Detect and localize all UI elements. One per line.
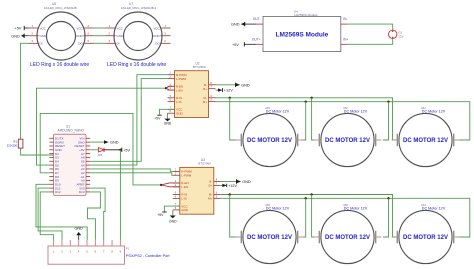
wire M+ bus down to motor M2 right [383,102,389,140]
svg-text:DC Motor 12V: DC Motor 12V [266,109,290,113]
svg-text:GND: GND [176,111,184,115]
svg-text:GND: GND [181,208,189,212]
svg-text:B+: B+ [209,184,213,188]
wire Arduino D5 to U2 enable pins [37,88,167,165]
+5V supply flag at U2 VCC [154,115,161,120]
Arduino Nano U1 body [54,125,87,196]
motor M5 DC Motor 12V [314,203,382,264]
wire lower M+ bus down to motor M6 right [303,198,306,237]
connector P1 PSX/PS2 Controller Port [48,240,130,264]
Arduino Nano U1 pins [49,137,90,195]
svg-text:L-EN: L-EN [176,88,183,92]
motor driver U3 BTS7960 [173,158,221,214]
svg-text:LED Ring x 16 double wire: LED Ring x 16 double wire [107,62,166,68]
svg-text:16xLED_RING_WS2812B-2: 16xLED_RING_WS2812B-2 [121,6,157,10]
svg-text:DC Motor 12V: DC Motor 12V [266,206,290,210]
svg-text:+12V: +12V [228,184,237,188]
svg-text:DC MOTOR 12V: DC MOTOR 12V [247,138,292,144]
svg-text:L-PWM: L-PWM [181,173,192,177]
svg-text:B+: B+ [203,87,207,91]
wire Arduino A5 to U2 L-PWM [90,79,167,162]
svg-text:GND: GND [153,34,161,38]
svg-text:+5V: +5V [157,213,164,217]
svg-text:L-EN: L-EN [181,185,188,189]
ground flag at Arduino GND pin [90,140,118,144]
svg-text:GND: GND [76,34,84,38]
svg-text:GND: GND [242,180,251,184]
wire Arduino 3V3 to PSX pin 7 [90,188,105,240]
node U2 enable junction [165,87,167,89]
wire lower M- bus down to motor M5 left [312,195,314,238]
motor M3 DC Motor 12V [236,106,304,167]
svg-text:L-IS: L-IS [176,100,182,104]
buck converter module U4 LM2596S [252,9,349,51]
voltage source G1 12V [389,30,404,39]
wire lower M- bus down to motor M6 left [230,195,236,238]
svg-text:GND: GND [164,122,172,126]
wire ring U5 DI down to resistor R1 [21,43,29,139]
+5V supply flag after diode D7 [104,148,131,153]
svg-text:P1: P1 [126,247,130,251]
svg-text:220-500: 220-500 [7,143,18,147]
wire ring U5 pin4 VCC to ring U7 pin1 VCC [94,27,106,29]
wire M- bus down to motor M3 left [230,98,236,140]
diode D7 from Arduino +5V pin [90,148,104,157]
svg-text:DC Motor 12V: DC Motor 12V [422,206,446,210]
wire U3 B- to ground flag [221,181,237,183]
node lower M+ bus motor M6 drop [305,197,307,199]
svg-text:DC Motor 12V: DC Motor 12V [422,109,446,113]
svg-text:DO: DO [78,42,83,46]
resistor R1 220-500 [7,139,23,148]
motor M1 DC Motor 12V [392,106,460,167]
wire Arduino D10 to PSX pin 5 [36,184,87,240]
svg-text:OUT-: OUT- [253,17,261,21]
node M- bus motor M3 drop [229,97,231,99]
wire +5V junction down to PSX pin 9 [119,150,121,240]
wire fork to U2 R-EN and L-EN [166,86,175,90]
motor M2 DC Motor 12V [314,106,382,167]
node junction +5V to PSX pin9 [119,149,121,151]
svg-text:GND: GND [110,141,119,145]
svg-text:D12: D12 [55,190,61,194]
wire U2 M- bus to left motor terminals [216,98,397,140]
+5V supply flag at U3 VCC [157,212,166,217]
ground flag at U4 OUT- [231,22,256,27]
wire Arduino A3 to U3 R-PWM [90,169,173,172]
motor M4 DC Motor 12V [392,203,460,264]
svg-text:GND: GND [169,219,177,223]
svg-text:GND: GND [241,83,250,87]
wire Arduino A4 to U2 R-PWM [90,75,167,165]
wire U3 M- bus to left motor terminals [221,195,397,238]
node M+ bus motor M3 drop [305,100,307,102]
wire U2 GND down [167,113,169,118]
motor driver U2 BTS7960 [168,61,216,117]
svg-text:LED Ring x 16 double wire: LED Ring x 16 double wire [30,62,89,68]
svg-text:+5V: +5V [15,27,22,31]
wire R1 to Arduino D2 [21,148,54,155]
svg-text:VCC: VCC [117,26,124,30]
svg-text:DI: DI [40,42,43,46]
wire U4 IN- to source G1 [348,24,393,30]
svg-text:IN-: IN- [343,17,347,21]
wire ring U5 pin5 GND to ring U7 pin2 GND [94,35,106,37]
node M- bus motor M2 drop [310,97,312,99]
svg-text:DI: DI [117,42,120,46]
ground flag at U2 GND [164,119,172,126]
wire Arduino D11 to PSX pin 2 [38,188,62,240]
wire ring U5 pin6 DO to ring U7 pin3 DI [94,42,106,44]
svg-text:L-PWM: L-PWM [176,77,187,81]
svg-text:DC MOTOR 12V: DC MOTOR 12V [325,138,370,144]
wire fork to U3 R-EN and L-EN [161,183,180,187]
wire Arduino D7 to U3 enable pins [40,113,161,184]
ground flag at U2 B- [236,83,250,88]
svg-text:VCC: VCC [40,26,47,30]
wire U2 M+ bus to right motor terminals [216,102,470,140]
ground flag at U3 GND [169,216,177,224]
node lower M- bus motor M6 drop [229,193,231,195]
motor M6 DC Motor 12V [236,203,304,264]
svg-text:DC MOTOR 12V: DC MOTOR 12V [325,235,370,241]
svg-text:PSX/PS2 - Controller Port: PSX/PS2 - Controller Port [126,254,171,258]
svg-text:M+: M+ [208,197,212,201]
+5V supply flag at U4 OUT+ [232,42,256,47]
ground flag at ring U5 GND [11,34,28,39]
+12V supply flag at U2 B+ [216,88,234,93]
ground flag at U3 B- [237,179,251,184]
node M+ bus motor M2 drop [387,100,389,102]
svg-text:GND: GND [231,23,240,27]
+12V supply flag at U3 B+ [221,184,238,188]
svg-text:+5V: +5V [123,148,130,152]
wire M- bus down to motor M2 left [312,98,314,140]
node lower M- bus motor M5 drop [310,193,312,195]
svg-text:DC MOTOR 12V: DC MOTOR 12V [403,138,448,144]
node U3 enable junction [160,184,162,186]
svg-text:GND: GND [11,34,20,38]
wire U2 B- to ground flag [216,84,236,86]
svg-text:BTS7960: BTS7960 [198,162,211,166]
svg-text:16xLED_RING_WS2812B: 16xLED_RING_WS2812B [44,6,77,10]
wire U3 GND down [172,210,174,216]
svg-text:DC Motor 12V: DC Motor 12V [344,109,368,113]
svg-text:L-IS: L-IS [181,197,187,201]
wire Arduino A2 to U3 L-PWM [90,173,173,175]
wire M+ bus down to motor M3 right [303,102,306,140]
svg-text:12V: 12V [398,35,403,39]
svg-text:D13: D13 [79,190,85,194]
svg-text:DC MOTOR 12V: DC MOTOR 12V [403,235,448,241]
svg-text:D7: D7 [99,153,103,157]
svg-text:LM2569S Module: LM2569S Module [276,32,329,39]
svg-text:GND: GND [74,226,83,230]
svg-text:VCC: VCC [153,26,160,30]
svg-text:IN+: IN+ [343,37,348,41]
svg-text:DC Motor 12V: DC Motor 12V [344,206,368,210]
svg-text:OUT+: OUT+ [252,37,261,41]
svg-text:LM2596S Module: LM2596S Module [294,13,318,17]
LED ring U5 16xLED_RING_WS2812B [29,2,94,60]
svg-text:+5V: +5V [154,117,161,121]
svg-text:M+: M+ [203,100,207,104]
svg-text:VCC: VCC [76,26,83,30]
svg-text:ARDUINO_NANO: ARDUINO_NANO [58,129,85,133]
wire lower M+ bus down to motor M5 right [383,198,389,237]
svg-text:+5V: +5V [232,43,239,47]
wire U3 VCC to +5V flag [165,206,180,211]
wire U3 M+ bus to right motor terminals [221,198,470,237]
svg-text:BTS7960: BTS7960 [193,65,206,69]
wire U2 VCC to +5V flag [160,109,175,114]
+5V supply flag at ring U5 VCC [15,26,29,31]
svg-text:GND: GND [40,34,48,38]
wire U4 IN+ to source G1 [348,39,393,45]
wire Arduino D12 to PSX pin 1 [40,192,53,240]
svg-text:DO: DO [155,42,160,46]
node lower M+ bus motor M5 drop [387,197,389,199]
svg-text:GND: GND [117,34,125,38]
LED ring U7 16xLED_RING_WS2812B-2 [106,2,171,60]
ground flag at PSX pin 4 [74,226,83,240]
svg-text:DC MOTOR 12V: DC MOTOR 12V [247,235,292,241]
wire Arduino D13 to PSX pin 6 [88,192,101,240]
svg-text:+12V: +12V [224,89,233,93]
